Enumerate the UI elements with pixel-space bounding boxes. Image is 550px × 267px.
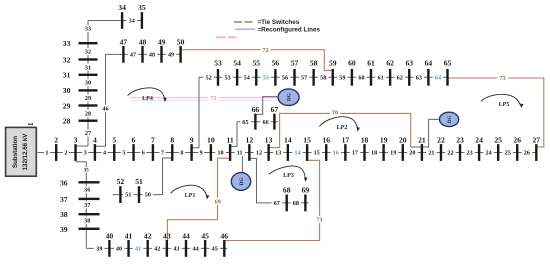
- svg-text:57: 57: [291, 58, 299, 67]
- svg-text:52: 52: [206, 74, 212, 81]
- svg-text:62: 62: [386, 58, 394, 67]
- svg-text:53: 53: [214, 58, 222, 67]
- svg-text:14: 14: [294, 150, 300, 157]
- svg-text:67: 67: [271, 105, 279, 114]
- svg-text:27: 27: [85, 130, 91, 137]
- svg-text:40: 40: [106, 231, 114, 240]
- svg-text:=Reconfigured Lines: =Reconfigured Lines: [258, 26, 321, 33]
- svg-text:32: 32: [63, 55, 71, 64]
- svg-text:41: 41: [135, 246, 141, 253]
- svg-text:51: 51: [135, 177, 143, 186]
- svg-text:2: 2: [54, 135, 58, 144]
- svg-text:132/12.66 kV: 132/12.66 kV: [22, 133, 29, 171]
- svg-text:13: 13: [275, 150, 281, 157]
- svg-text:48: 48: [149, 52, 155, 59]
- svg-text:25: 25: [494, 135, 502, 144]
- svg-text:2: 2: [64, 150, 67, 157]
- svg-text:65: 65: [242, 119, 248, 126]
- svg-text:LP3: LP3: [283, 173, 294, 179]
- svg-text:12: 12: [246, 135, 254, 144]
- svg-text:4: 4: [93, 135, 97, 144]
- svg-text:56: 56: [272, 58, 280, 67]
- svg-text:53: 53: [224, 74, 230, 81]
- svg-text:55: 55: [263, 74, 269, 81]
- svg-text:37: 37: [84, 202, 90, 209]
- svg-text:34: 34: [129, 18, 135, 25]
- svg-text:54: 54: [233, 58, 241, 67]
- svg-text:11: 11: [237, 150, 243, 157]
- svg-text:10: 10: [217, 150, 223, 157]
- svg-text:39: 39: [96, 246, 102, 253]
- svg-text:LP4: LP4: [142, 96, 153, 102]
- svg-text:62: 62: [397, 74, 403, 81]
- svg-text:19: 19: [390, 150, 396, 157]
- svg-text:56: 56: [282, 74, 288, 81]
- svg-text:28: 28: [85, 111, 91, 118]
- svg-text:14: 14: [284, 135, 292, 144]
- svg-text:39: 39: [60, 225, 68, 234]
- svg-text:LP5: LP5: [499, 102, 510, 108]
- svg-text:36: 36: [60, 178, 68, 187]
- svg-text:31: 31: [63, 71, 71, 80]
- svg-text:50: 50: [145, 192, 151, 199]
- svg-text:22: 22: [447, 150, 453, 157]
- svg-text:DG: DG: [286, 93, 292, 101]
- svg-text:30: 30: [63, 86, 71, 95]
- svg-text:58: 58: [310, 58, 318, 67]
- svg-text:42: 42: [144, 231, 152, 240]
- svg-text:4: 4: [103, 150, 106, 157]
- svg-text:54: 54: [244, 74, 250, 81]
- svg-text:35: 35: [138, 3, 146, 12]
- svg-text:42: 42: [154, 246, 160, 253]
- svg-text:20: 20: [409, 150, 415, 157]
- svg-text:26: 26: [513, 135, 521, 144]
- svg-text:46: 46: [221, 231, 229, 240]
- svg-text:LP1: LP1: [185, 193, 196, 199]
- svg-text:LP2: LP2: [337, 125, 348, 131]
- svg-text:35: 35: [84, 169, 90, 174]
- svg-text:23: 23: [456, 135, 464, 144]
- svg-text:Substation: Substation: [12, 136, 19, 168]
- svg-text:43: 43: [163, 231, 171, 240]
- svg-text:9: 9: [190, 135, 194, 144]
- svg-text:24: 24: [475, 135, 483, 144]
- svg-text:68: 68: [283, 186, 291, 195]
- svg-text:3: 3: [74, 135, 78, 144]
- svg-text:69: 69: [215, 199, 221, 206]
- svg-text:61: 61: [367, 58, 375, 67]
- svg-text:16: 16: [333, 150, 339, 157]
- svg-text:49: 49: [168, 52, 174, 59]
- svg-text:DG: DG: [447, 116, 453, 124]
- svg-text:17: 17: [342, 135, 350, 144]
- svg-text:69: 69: [302, 186, 310, 195]
- svg-text:64: 64: [435, 74, 441, 81]
- svg-text:7: 7: [151, 135, 155, 144]
- svg-text:23: 23: [466, 150, 472, 157]
- svg-text:55: 55: [252, 58, 260, 67]
- svg-text:38: 38: [60, 210, 68, 219]
- svg-text:72: 72: [210, 95, 216, 102]
- svg-text:51: 51: [125, 192, 131, 199]
- svg-text:61: 61: [377, 74, 383, 81]
- svg-text:47: 47: [120, 37, 128, 46]
- svg-text:1: 1: [45, 150, 48, 157]
- svg-text:36: 36: [84, 187, 90, 194]
- svg-text:18: 18: [361, 135, 369, 144]
- svg-text:DG: DG: [239, 178, 245, 186]
- svg-text:6: 6: [142, 150, 145, 157]
- svg-text:9: 9: [200, 150, 203, 157]
- svg-text:72: 72: [262, 47, 268, 54]
- svg-text:67: 67: [274, 200, 280, 207]
- svg-text:16: 16: [322, 135, 330, 144]
- svg-text:28: 28: [63, 117, 71, 126]
- svg-text:44: 44: [182, 231, 190, 240]
- svg-text:13: 13: [265, 135, 273, 144]
- svg-text:18: 18: [371, 150, 377, 157]
- svg-text:15: 15: [314, 150, 320, 157]
- svg-text:73: 73: [499, 75, 505, 82]
- svg-text:45: 45: [201, 231, 209, 240]
- svg-text:31: 31: [85, 64, 91, 71]
- svg-text:27: 27: [533, 135, 541, 144]
- svg-text:65: 65: [444, 58, 452, 67]
- svg-text:48: 48: [139, 37, 147, 46]
- svg-text:5: 5: [122, 150, 125, 157]
- svg-text:70: 70: [332, 110, 338, 117]
- svg-text:66: 66: [252, 105, 260, 114]
- svg-text:34: 34: [118, 3, 126, 12]
- svg-text:63: 63: [405, 58, 413, 67]
- svg-text:12: 12: [256, 150, 262, 157]
- svg-text:64: 64: [425, 58, 433, 67]
- svg-text:30: 30: [85, 80, 91, 87]
- svg-text:59: 59: [339, 74, 345, 81]
- svg-text:71: 71: [317, 216, 323, 223]
- svg-text:50: 50: [177, 37, 185, 46]
- svg-text:68: 68: [293, 200, 299, 207]
- svg-text:43: 43: [173, 246, 179, 253]
- svg-text:63: 63: [416, 74, 422, 81]
- svg-text:15: 15: [303, 135, 311, 144]
- svg-text:32: 32: [85, 49, 91, 56]
- svg-text:60: 60: [358, 74, 364, 81]
- svg-text:19: 19: [380, 135, 388, 144]
- svg-text:41: 41: [125, 231, 133, 240]
- svg-text:20: 20: [399, 135, 407, 144]
- svg-text:17: 17: [352, 150, 358, 157]
- svg-text:8: 8: [180, 150, 183, 157]
- svg-text:37: 37: [60, 195, 68, 204]
- svg-text:26: 26: [524, 150, 530, 157]
- svg-text:47: 47: [130, 52, 136, 59]
- svg-text:5: 5: [112, 135, 116, 144]
- svg-text:66: 66: [263, 119, 269, 126]
- svg-text:21: 21: [418, 135, 426, 144]
- svg-text:59: 59: [329, 58, 337, 67]
- svg-text:21: 21: [428, 150, 434, 157]
- svg-text:29: 29: [63, 101, 71, 110]
- svg-text:25: 25: [505, 150, 511, 157]
- svg-text:6: 6: [132, 135, 136, 144]
- svg-text:38: 38: [84, 217, 90, 224]
- svg-text:33: 33: [63, 39, 71, 48]
- svg-text:33: 33: [85, 26, 91, 33]
- svg-text:7: 7: [161, 150, 164, 157]
- svg-text:49: 49: [158, 37, 166, 46]
- svg-text:60: 60: [348, 58, 356, 67]
- svg-text:46: 46: [102, 105, 108, 112]
- svg-text:40: 40: [116, 246, 122, 253]
- svg-text:3: 3: [84, 150, 87, 157]
- svg-text:45: 45: [212, 246, 218, 253]
- svg-text:10: 10: [207, 135, 215, 144]
- svg-text:1: 1: [27, 122, 35, 126]
- svg-text:8: 8: [170, 135, 174, 144]
- svg-text:24: 24: [486, 150, 492, 157]
- svg-text:58: 58: [320, 74, 326, 81]
- svg-text:57: 57: [301, 74, 307, 81]
- svg-text:=Tie Switches: =Tie Switches: [258, 19, 300, 26]
- svg-text:29: 29: [85, 95, 91, 102]
- svg-text:11: 11: [227, 135, 234, 144]
- svg-text:52: 52: [117, 177, 125, 186]
- svg-text:44: 44: [192, 246, 198, 253]
- svg-text:22: 22: [437, 135, 445, 144]
